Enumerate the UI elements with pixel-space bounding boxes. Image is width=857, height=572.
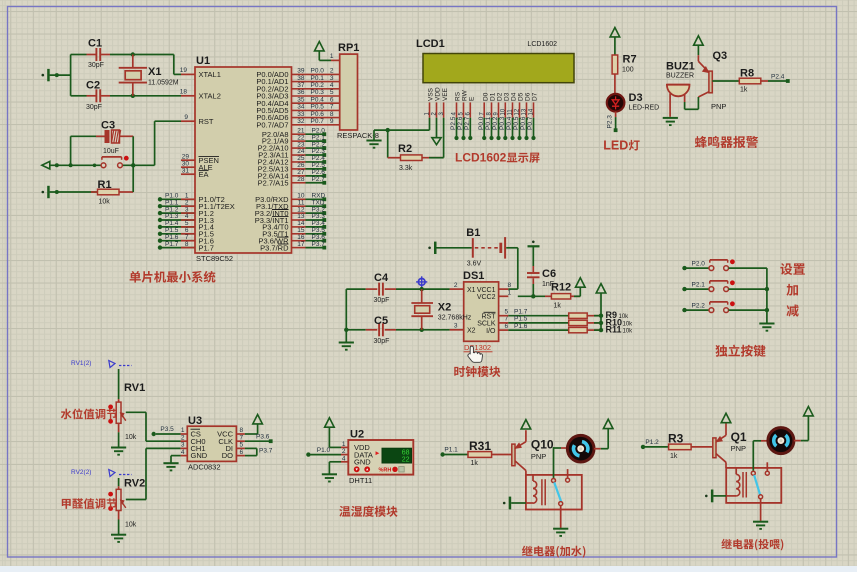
svg-text:7: 7 <box>240 434 244 441</box>
svg-text:RV2(2): RV2(2) <box>71 469 91 476</box>
svg-text:RST: RST <box>199 117 214 126</box>
svg-text:1: 1 <box>342 441 346 448</box>
svg-text:P1.7: P1.7 <box>165 241 179 248</box>
svg-text:PNP: PNP <box>711 102 726 111</box>
svg-text:1: 1 <box>181 427 185 434</box>
svg-text:8: 8 <box>508 282 512 289</box>
svg-text:DHT11: DHT11 <box>349 476 372 485</box>
svg-text:R8: R8 <box>740 68 754 80</box>
svg-text:1k: 1k <box>471 460 479 467</box>
svg-text:RS: RS <box>455 91 462 101</box>
svg-text:PNP: PNP <box>531 452 546 461</box>
svg-text:12: 12 <box>515 108 521 115</box>
svg-text:P0.5: P0.5 <box>311 104 325 111</box>
svg-text:D7: D7 <box>532 92 539 101</box>
svg-text:33: 33 <box>297 111 305 118</box>
svg-text:P3.7: P3.7 <box>312 241 326 248</box>
svg-text:9: 9 <box>184 114 188 121</box>
svg-text:30pF: 30pF <box>374 338 390 345</box>
svg-text:U3: U3 <box>188 415 202 427</box>
svg-text:29: 29 <box>182 154 190 161</box>
svg-text:C6: C6 <box>542 268 556 280</box>
svg-text:2: 2 <box>330 68 334 75</box>
svg-text:30: 30 <box>182 161 190 168</box>
svg-text:39: 39 <box>297 68 305 75</box>
svg-text:2: 2 <box>181 434 185 441</box>
svg-text:3.3k: 3.3k <box>399 165 413 172</box>
svg-text:VEE: VEE <box>442 87 449 101</box>
svg-text:Q1: Q1 <box>731 430 747 444</box>
svg-text:Q10: Q10 <box>531 438 554 452</box>
svg-text:X1: X1 <box>467 287 476 294</box>
svg-text:68: 68 <box>402 450 410 457</box>
svg-text:P0.7/AD7: P0.7/AD7 <box>256 120 288 129</box>
svg-text:2: 2 <box>454 282 458 289</box>
svg-text:7: 7 <box>505 316 509 323</box>
svg-text:17: 17 <box>297 241 305 248</box>
svg-text:13: 13 <box>522 108 528 115</box>
svg-text:10uF: 10uF <box>103 148 119 155</box>
svg-text:VSS: VSS <box>428 87 435 101</box>
svg-text:ADC0832: ADC0832 <box>188 463 221 472</box>
svg-text:P3.5: P3.5 <box>160 426 174 433</box>
svg-text:RV1: RV1 <box>124 382 145 394</box>
svg-text:EA: EA <box>199 170 209 179</box>
svg-text:DO: DO <box>222 451 233 460</box>
svg-text:C2: C2 <box>86 80 100 92</box>
svg-text:D5: D5 <box>518 92 525 101</box>
svg-text:38: 38 <box>297 75 305 82</box>
svg-text:23: 23 <box>297 141 305 148</box>
svg-text:30pF: 30pF <box>374 297 390 304</box>
svg-text:I/O: I/O <box>486 328 496 335</box>
svg-text:37: 37 <box>297 82 305 89</box>
svg-text:P0.6: P0.6 <box>311 111 325 118</box>
svg-text:6: 6 <box>330 96 334 103</box>
svg-text:▶: ▶ <box>376 451 380 457</box>
svg-text:18: 18 <box>180 88 188 95</box>
svg-text:P0.0: P0.0 <box>311 68 325 75</box>
svg-text:P0.1: P0.1 <box>485 116 492 130</box>
svg-text:P0.0: P0.0 <box>478 116 485 130</box>
svg-text:X1: X1 <box>148 66 161 78</box>
svg-text:1: 1 <box>330 53 334 60</box>
svg-text:8: 8 <box>240 427 244 434</box>
svg-text:10k: 10k <box>125 434 137 441</box>
svg-text:36: 36 <box>297 89 305 96</box>
svg-text:DS1302: DS1302 <box>464 343 491 352</box>
svg-text:7: 7 <box>330 104 334 111</box>
svg-text:1k: 1k <box>740 87 748 94</box>
svg-text:10k: 10k <box>623 321 634 327</box>
svg-text:B1: B1 <box>466 227 480 239</box>
svg-text:P0.5: P0.5 <box>513 116 520 130</box>
svg-text:VDD: VDD <box>435 87 442 101</box>
svg-text:P0.3: P0.3 <box>499 116 506 130</box>
svg-text:P1.6: P1.6 <box>514 323 528 330</box>
svg-text:P2.3: P2.3 <box>607 115 614 129</box>
svg-text:10k: 10k <box>623 329 634 335</box>
svg-text:GND: GND <box>191 451 208 460</box>
svg-text:14: 14 <box>529 108 535 115</box>
svg-text:D4: D4 <box>511 92 518 101</box>
svg-text:P0.4: P0.4 <box>311 96 325 103</box>
svg-text:RST: RST <box>482 314 497 321</box>
svg-text:10: 10 <box>501 108 507 115</box>
svg-text:3: 3 <box>454 323 458 330</box>
svg-text:4: 4 <box>342 455 346 462</box>
svg-text:4: 4 <box>181 449 185 456</box>
svg-text:R2: R2 <box>398 143 412 155</box>
svg-text:8: 8 <box>185 241 189 248</box>
svg-text:6: 6 <box>505 323 509 330</box>
svg-text:P0.7: P0.7 <box>527 116 534 130</box>
svg-text:30pF: 30pF <box>86 104 102 111</box>
svg-text:C1: C1 <box>88 38 102 50</box>
svg-text:D1: D1 <box>490 92 497 101</box>
svg-text:D0: D0 <box>482 92 489 101</box>
svg-text:GND: GND <box>354 458 371 467</box>
svg-text:D6: D6 <box>525 92 532 101</box>
svg-text:8: 8 <box>330 111 334 118</box>
svg-text:X2: X2 <box>467 328 476 335</box>
svg-text:1k: 1k <box>670 453 678 460</box>
svg-text:STC89C52: STC89C52 <box>196 254 233 263</box>
svg-text:BUZ1: BUZ1 <box>666 61 695 73</box>
svg-text:P2.0: P2.0 <box>692 260 706 267</box>
svg-text:P3.6: P3.6 <box>256 433 270 440</box>
svg-text:DS1: DS1 <box>463 270 484 282</box>
svg-text:XTAL2: XTAL2 <box>199 92 221 101</box>
svg-text:LCD1: LCD1 <box>416 38 445 50</box>
svg-text:PNP: PNP <box>731 444 746 453</box>
svg-text:P2.7: P2.7 <box>464 116 471 130</box>
svg-text:P1.0: P1.0 <box>317 447 331 454</box>
svg-text:RESPACK-8: RESPACK-8 <box>337 131 379 140</box>
svg-text:22: 22 <box>402 457 410 464</box>
svg-text:3: 3 <box>330 75 334 82</box>
svg-text:11: 11 <box>508 109 514 116</box>
svg-text:100: 100 <box>622 67 634 74</box>
svg-text:34: 34 <box>297 104 305 111</box>
svg-text:E: E <box>469 96 476 101</box>
svg-text:P0.3: P0.3 <box>311 89 325 96</box>
svg-text:5: 5 <box>240 442 244 449</box>
svg-text:Q3: Q3 <box>713 50 728 62</box>
svg-text:LED-RED: LED-RED <box>629 105 660 112</box>
svg-text:P0.4: P0.4 <box>506 116 513 130</box>
svg-text:11.0592M: 11.0592M <box>148 80 179 87</box>
svg-text:D3: D3 <box>629 92 643 104</box>
svg-text:P2.7: P2.7 <box>312 176 326 183</box>
svg-text:BUZZER: BUZZER <box>666 73 694 80</box>
svg-text:1k: 1k <box>554 303 562 310</box>
svg-text:5: 5 <box>330 89 334 96</box>
svg-text:P0.6: P0.6 <box>520 116 527 130</box>
svg-text:LCD1602: LCD1602 <box>527 41 557 48</box>
svg-text:SCLK: SCLK <box>477 321 496 328</box>
svg-text:P1.7: P1.7 <box>199 243 214 252</box>
svg-text:32.768kHz: 32.768kHz <box>438 315 472 322</box>
svg-text:LED: LED <box>603 139 628 153</box>
svg-text:P3.7: P3.7 <box>259 448 273 455</box>
svg-text:3: 3 <box>181 442 185 449</box>
svg-text:R1: R1 <box>98 179 112 191</box>
svg-text:10k: 10k <box>99 199 111 206</box>
svg-text:VCC1: VCC1 <box>477 287 496 294</box>
svg-text:P0.2: P0.2 <box>311 82 325 89</box>
svg-text:R7: R7 <box>623 54 637 66</box>
svg-text:C5: C5 <box>374 315 388 327</box>
svg-text:P3.7/RD: P3.7/RD <box>260 243 289 252</box>
svg-text:10k: 10k <box>125 522 137 529</box>
svg-text:R31: R31 <box>469 439 491 453</box>
svg-text:X2: X2 <box>438 302 451 314</box>
svg-text:30pF: 30pF <box>88 62 104 69</box>
svg-text:9: 9 <box>330 118 334 125</box>
svg-text:P2.2: P2.2 <box>692 302 706 309</box>
svg-text:D3: D3 <box>504 92 511 101</box>
svg-text:P1.7: P1.7 <box>514 309 528 316</box>
svg-text:P2.1: P2.1 <box>692 281 706 288</box>
svg-text:RV2: RV2 <box>124 478 145 490</box>
svg-text:5: 5 <box>505 309 509 316</box>
svg-text:RP1: RP1 <box>338 42 359 54</box>
svg-text:32: 32 <box>297 118 305 125</box>
svg-text:U1: U1 <box>196 55 210 67</box>
svg-text:R12: R12 <box>551 282 571 294</box>
svg-text:RV1(2): RV1(2) <box>71 360 91 367</box>
svg-text:P2.3: P2.3 <box>312 148 326 155</box>
svg-text:VCC2: VCC2 <box>477 294 496 301</box>
svg-text:P1.1: P1.1 <box>444 447 458 454</box>
svg-text:P2.2: P2.2 <box>312 141 326 148</box>
svg-text:U2: U2 <box>350 429 364 441</box>
svg-text:35: 35 <box>297 96 305 103</box>
svg-text:%RH: %RH <box>379 468 392 474</box>
svg-text:31: 31 <box>182 168 190 175</box>
svg-text:R11: R11 <box>606 325 622 335</box>
svg-text:24: 24 <box>297 148 305 155</box>
svg-text:28: 28 <box>297 176 305 183</box>
svg-text:XTAL1: XTAL1 <box>199 70 221 79</box>
svg-text:P2.4: P2.4 <box>771 73 785 80</box>
svg-text:P1.5: P1.5 <box>514 316 528 323</box>
svg-text:P1.2: P1.2 <box>645 439 659 446</box>
svg-text:LCD1602: LCD1602 <box>455 151 507 165</box>
svg-text:4: 4 <box>330 82 334 89</box>
svg-text:C4: C4 <box>374 272 389 284</box>
svg-text:19: 19 <box>180 67 188 74</box>
svg-text:P2.7/A15: P2.7/A15 <box>258 178 289 187</box>
svg-text:P0.7: P0.7 <box>311 118 325 125</box>
svg-text:R3: R3 <box>668 432 684 446</box>
svg-text:P2.5: P2.5 <box>450 116 457 130</box>
svg-text:6: 6 <box>240 449 244 456</box>
svg-text:2: 2 <box>342 448 346 455</box>
svg-text:P0.1: P0.1 <box>311 75 325 82</box>
svg-text:3.6V: 3.6V <box>467 261 482 268</box>
